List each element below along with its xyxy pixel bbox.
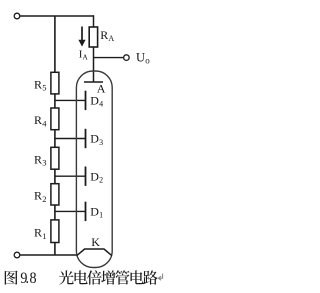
svg-text:A: A: [108, 34, 114, 43]
resistor R2: [51, 184, 59, 205]
resistor R1: [51, 220, 59, 243]
svg-text:R: R: [34, 152, 42, 166]
dynode electrode D1: [85, 202, 87, 221]
paragraph return mark: [158, 274, 162, 281]
cathode K plate: [77, 249, 112, 256]
resistor R4: [51, 108, 59, 130]
wire left divider-chain vertical bus: [54, 16, 56, 255]
svg-text:K: K: [91, 235, 100, 249]
terminal Uo output: [124, 55, 130, 61]
wire lead to dynode D2: [55, 175, 86, 177]
svg-text:.: .: [26, 271, 30, 288]
resistor R3: [51, 147, 59, 169]
svg-text:D: D: [90, 205, 99, 219]
wire output branch to Uo: [94, 57, 124, 59]
svg-text:D: D: [90, 94, 99, 108]
caption char 电: [75, 270, 88, 284]
svg-text:5: 5: [42, 83, 46, 93]
wire RA bottom down to anode lead: [93, 47, 95, 82]
terminal top-left input: [14, 13, 20, 19]
svg-text:4: 4: [99, 100, 103, 109]
dynode electrode D3: [85, 129, 87, 148]
dynode electrode D2: [85, 167, 87, 186]
wire lead to dynode D1: [55, 210, 86, 212]
caption figure label 图: [5, 271, 18, 285]
svg-text:R: R: [34, 189, 42, 203]
svg-text:R: R: [100, 28, 108, 42]
svg-text:R: R: [34, 113, 42, 127]
svg-text:R: R: [34, 77, 42, 91]
svg-text:1: 1: [42, 231, 46, 241]
anode plate A: [84, 81, 103, 83]
resistor RA: [89, 27, 97, 47]
svg-text:U: U: [136, 51, 145, 65]
caption char 光: [59, 270, 74, 284]
svg-text:3: 3: [42, 158, 46, 168]
svg-text:3: 3: [99, 138, 103, 147]
dynode electrode D4: [85, 91, 87, 110]
wire top horizontal from input terminal to RA branch: [20, 15, 94, 17]
wire lead to dynode D4: [55, 99, 86, 101]
svg-text:1: 1: [99, 211, 103, 220]
wire bottom horizontal to cathode: [20, 254, 77, 256]
resistor R5: [51, 72, 59, 94]
caption char 倍: [87, 270, 102, 284]
terminal bottom-left (cathode return): [14, 252, 20, 258]
caption char 增: [101, 270, 115, 284]
svg-text:D: D: [90, 132, 99, 146]
svg-text:4: 4: [42, 118, 47, 128]
photomultiplier tube envelope: [76, 71, 112, 268]
svg-text:A: A: [82, 53, 88, 62]
wire lead to dynode D3: [55, 138, 86, 140]
caption "9.8": [20, 271, 27, 288]
svg-text:o: o: [145, 56, 150, 66]
current arrow IA: [81, 27, 83, 42]
svg-text:R: R: [34, 226, 42, 240]
wire RA branch vertical (top wire corner down to RA): [93, 15, 95, 27]
svg-text:D: D: [90, 169, 99, 183]
caption char 管: [115, 270, 129, 284]
svg-text:2: 2: [42, 194, 46, 204]
svg-text:8: 8: [30, 271, 37, 288]
caption char 电: [131, 270, 144, 284]
caption char 路: [143, 270, 158, 284]
svg-text:2: 2: [99, 176, 103, 185]
